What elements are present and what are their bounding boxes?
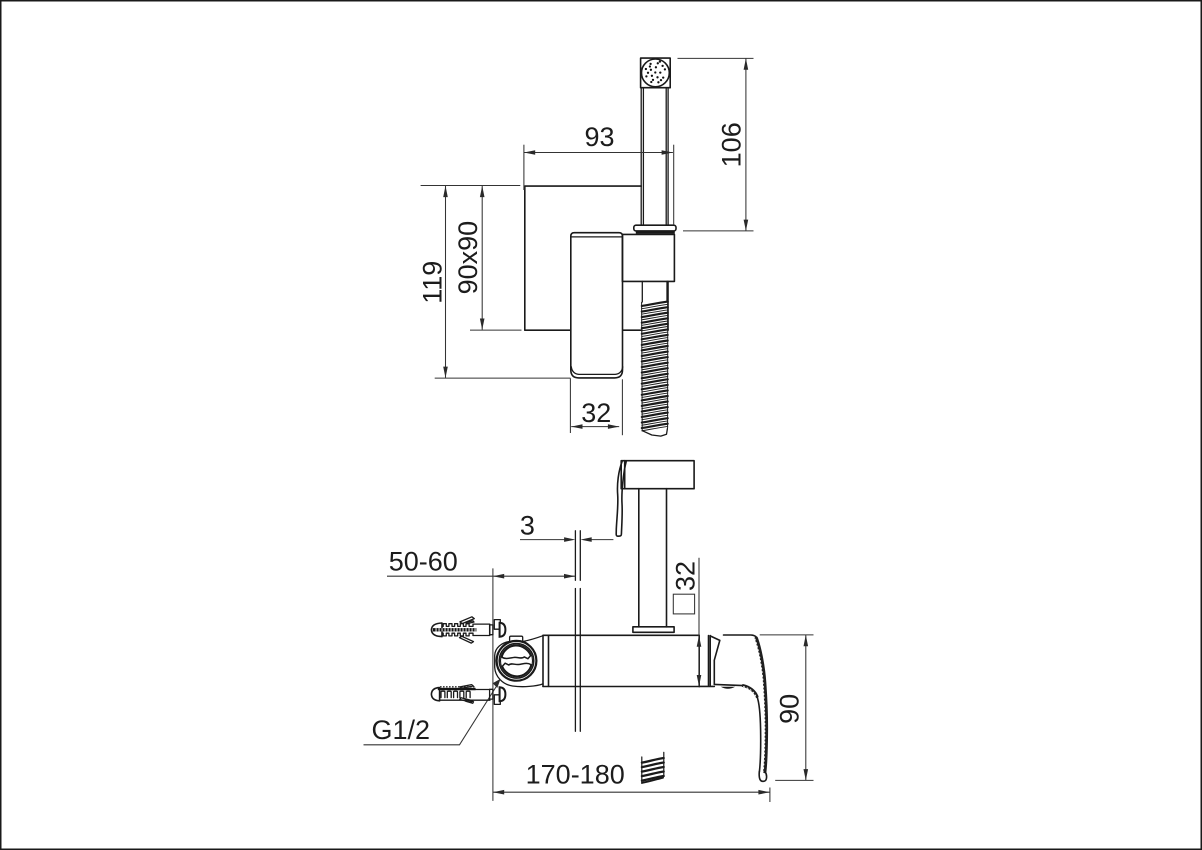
valve top tab: [510, 636, 523, 642]
svg-text:119: 119: [417, 261, 447, 304]
dim 3: [520, 511, 614, 542]
dim sq32: [671, 558, 702, 687]
mixer body: [543, 635, 714, 686]
svg-text:3: 3: [520, 511, 535, 541]
wall plate 90x90: [525, 186, 668, 330]
G1/2 label + leader: [364, 679, 501, 745]
svg-text:170-180: 170-180: [526, 760, 625, 790]
dim 32 (holder width): [570, 378, 622, 435]
dim 119: [417, 186, 570, 379]
hose upper straight section: [642, 281, 667, 302]
mixer lever: [724, 635, 767, 781]
mixer handle escutcheon: [710, 636, 719, 684]
svg-text:106: 106: [717, 122, 747, 167]
dim 106: [678, 58, 754, 231]
dim 170-180: [493, 760, 770, 802]
hose connector nut: [634, 225, 676, 234]
svg-text:93: 93: [584, 122, 614, 152]
valve housing: [495, 636, 543, 687]
corrugated hose: [642, 302, 668, 437]
svg-text:90x90: 90x90: [453, 221, 483, 295]
wall anchor line: [492, 568, 494, 801]
escutcheon plate (side): [575, 531, 580, 732]
shower handle: [641, 88, 668, 225]
dim 93: [524, 122, 674, 225]
sprayer lever: [616, 461, 626, 536]
spray face dots: [645, 60, 666, 83]
sprayer head: [621, 461, 694, 489]
svg-text:32: 32: [581, 398, 611, 428]
svg-text:90: 90: [775, 694, 805, 724]
svg-text:32: 32: [671, 561, 701, 591]
aerator shadow: [721, 687, 736, 689]
hose section symbol: [642, 752, 664, 783]
dim 90x90: [453, 186, 522, 330]
sprayer flange: [633, 627, 674, 633]
sprayer tube: [639, 489, 667, 627]
valve hot/cold waves: [502, 646, 531, 676]
lower wall anchor: [431, 685, 505, 705]
upper wall anchor: [431, 617, 505, 643]
dim 90: [760, 635, 814, 781]
svg-text:50-60: 50-60: [389, 547, 458, 577]
holder bracket: [622, 234, 674, 281]
dim 50-60: [387, 547, 575, 579]
svg-text:G1/2: G1/2: [372, 715, 431, 745]
shower holder: [571, 233, 623, 378]
shower head square: [641, 58, 671, 88]
valve circle: [497, 641, 537, 681]
